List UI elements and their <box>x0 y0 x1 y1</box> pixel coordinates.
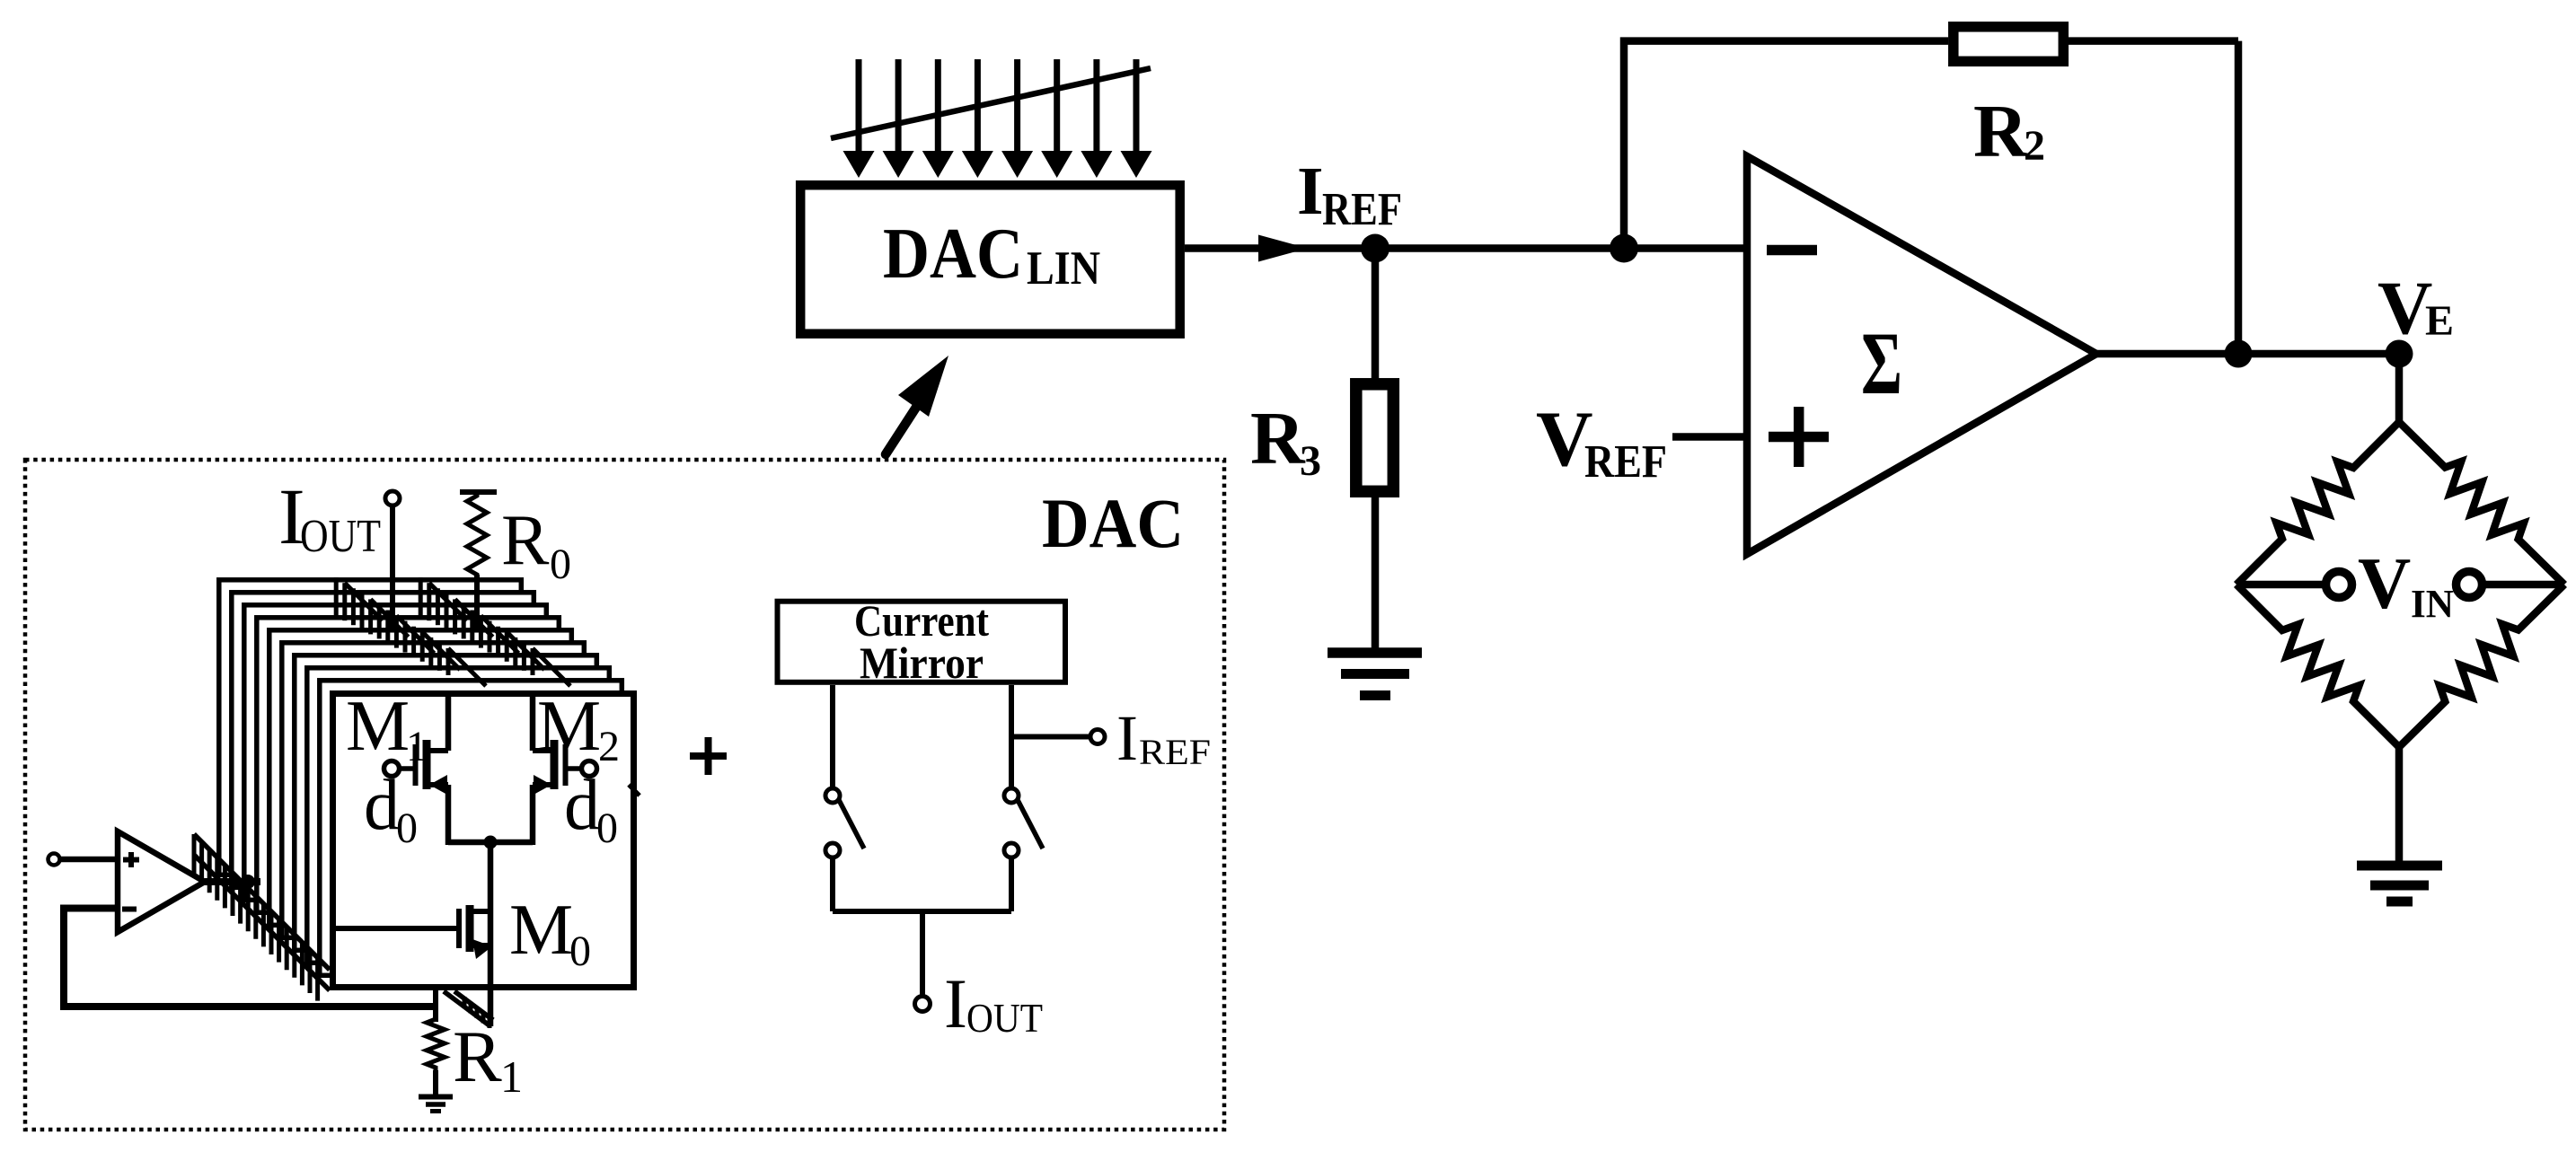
svg-text:Mirror: Mirror <box>860 638 984 688</box>
svg-text:M: M <box>509 891 573 970</box>
svg-text:0: 0 <box>396 805 418 852</box>
svg-text:OUT: OUT <box>300 511 381 562</box>
svg-text:M: M <box>346 687 410 766</box>
svg-text:I: I <box>1297 154 1324 229</box>
svg-text:0: 0 <box>550 541 571 588</box>
svg-text:M: M <box>537 687 601 766</box>
svg-text:R: R <box>1250 397 1306 480</box>
svg-text:LIN: LIN <box>1027 242 1100 295</box>
svg-text:2: 2 <box>598 723 620 770</box>
svg-text:R: R <box>501 501 550 580</box>
svg-text:REF: REF <box>1322 184 1402 235</box>
svg-text:R: R <box>453 1016 502 1097</box>
svg-text:REF: REF <box>1139 732 1211 772</box>
svg-text:REF: REF <box>1584 436 1667 488</box>
svg-text:V: V <box>2358 542 2411 624</box>
svg-text:Σ: Σ <box>1861 313 1902 413</box>
svg-text:R: R <box>1973 90 2029 173</box>
svg-text:3: 3 <box>1300 437 1321 485</box>
svg-text:I: I <box>944 964 967 1042</box>
svg-text:DAC: DAC <box>883 215 1023 294</box>
svg-text:DAC: DAC <box>1042 484 1184 562</box>
svg-text:2: 2 <box>2024 122 2045 170</box>
svg-text:E: E <box>2425 297 2454 345</box>
svg-text:0: 0 <box>569 928 591 975</box>
svg-text:OUT: OUT <box>966 996 1043 1041</box>
svg-text:1: 1 <box>500 1051 523 1102</box>
svg-text:d: d <box>564 766 600 845</box>
svg-text:I: I <box>1116 702 1138 774</box>
svg-text:IN: IN <box>2411 582 2454 626</box>
svg-text:0: 0 <box>596 805 618 852</box>
